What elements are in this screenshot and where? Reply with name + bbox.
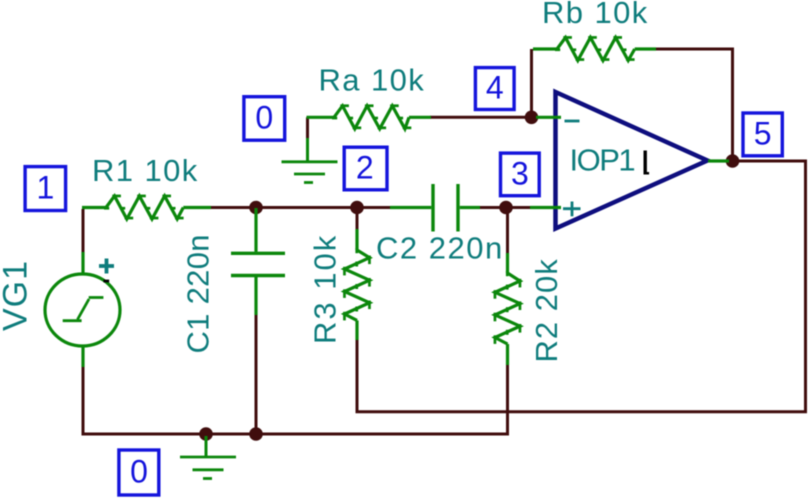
capacitor C2 — [390, 184, 480, 232]
wire: R2 bottom stub — [506, 364, 509, 435]
ground (node 2 branch) — [282, 138, 338, 183]
svg-text:4: 4 — [486, 70, 504, 106]
svg-text:R3 10k: R3 10k — [308, 234, 343, 344]
junction: node 5 output — [726, 154, 740, 168]
node box 2 — [344, 147, 387, 190]
svg-text:0: 0 — [130, 454, 148, 490]
label Rb value — [542, 0, 649, 30]
node box 0 (lower) — [119, 450, 159, 495]
wire: R1 right to C2 left (node 2 net) — [210, 206, 391, 209]
svg-text:5: 5 — [754, 116, 772, 152]
VG1 terminal mark — [103, 280, 109, 283]
resistor Ra — [307, 104, 432, 129]
ground (bottom rail) — [180, 436, 236, 479]
svg-text:3: 3 — [511, 155, 529, 191]
resistor R1 — [82, 195, 211, 220]
resistor Rb — [533, 36, 656, 61]
label C1 value (vertical) — [181, 234, 216, 353]
wire: VG1 top to R1 — [82, 209, 85, 254]
text cursor mark — [644, 151, 650, 175]
wire: ground 1 stub upper — [306, 117, 309, 139]
wire: node 4 up to Rb left — [530, 49, 533, 117]
voltage source VG1 — [45, 252, 120, 367]
label R3 value (vertical) — [308, 234, 343, 344]
junction: R3 top — [350, 201, 364, 215]
wire: C2 right to op-amp + input — [479, 206, 531, 209]
node box 4 — [475, 68, 514, 110]
label VG1 (vertical) — [0, 260, 35, 331]
VG1 plus sign — [99, 259, 114, 274]
node box 3 — [501, 153, 540, 196]
wire: VG1 bottom to ground rail — [83, 366, 509, 434]
wire: R3 bottom to output feedback loop — [357, 161, 806, 412]
wire: Rb right down to output node 5 — [655, 49, 733, 158]
node box 1 — [25, 167, 66, 211]
op-amp IOP1 — [530, 92, 729, 229]
label IOP1 — [570, 143, 635, 178]
svg-text:VG1: VG1 — [0, 260, 35, 331]
capacitor C1 (vertical) — [231, 208, 285, 315]
resistor R2 (vertical) — [494, 253, 522, 365]
label C2 value — [376, 231, 504, 266]
svg-text:0: 0 — [255, 100, 273, 136]
svg-text:2: 2 — [356, 150, 374, 186]
junction: node 4 — [525, 111, 539, 125]
node box 0 (upper) — [244, 97, 285, 141]
wire: R2 top stub — [506, 208, 509, 255]
node box 5 — [743, 113, 782, 156]
svg-text:R1 10k: R1 10k — [92, 153, 199, 188]
junction: C1 bottom — [249, 427, 263, 441]
junction: C1 top — [249, 201, 263, 215]
wire: R3 top stub — [356, 208, 359, 232]
label Ra value — [319, 62, 426, 97]
junction: ground rail — [199, 427, 213, 441]
svg-text:Rb 10k: Rb 10k — [542, 0, 649, 30]
svg-text:C2 220n: C2 220n — [376, 231, 504, 266]
wire: C1 column lower — [255, 314, 258, 434]
svg-text:1: 1 — [37, 170, 55, 206]
label R2 value (vertical) — [529, 258, 564, 362]
svg-text:IOP1: IOP1 — [570, 143, 635, 178]
junction: node 3 — [499, 201, 513, 215]
label R1 value — [92, 153, 199, 188]
svg-text:Ra 10k: Ra 10k — [319, 62, 426, 97]
wire: Ra right to node 4 — [430, 116, 533, 119]
svg-text:R2 20k: R2 20k — [529, 258, 564, 362]
svg-text:C1 220n: C1 220n — [181, 234, 216, 353]
resistor R3 (vertical) — [343, 229, 371, 340]
